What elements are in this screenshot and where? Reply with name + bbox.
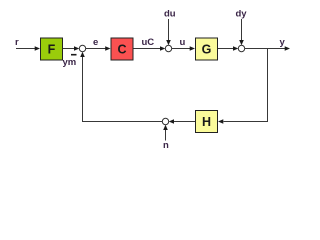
wire du vertical — [168, 19, 170, 42]
wire dy vertical — [241, 19, 243, 42]
block F — [41, 38, 63, 60]
block H — [196, 111, 218, 133]
wire H to sum4 — [174, 121, 196, 123]
block C — [111, 38, 133, 60]
arrowhead into F — [35, 46, 40, 51]
block G — [196, 38, 218, 60]
svg-text:y: y — [280, 37, 286, 48]
svg-text:F: F — [48, 43, 56, 57]
arrowhead into sum4 right — [169, 119, 174, 124]
summing junction sum4 — [162, 118, 168, 124]
arrowhead into sum1 left — [74, 46, 79, 51]
arrowhead into H right — [218, 119, 223, 124]
svg-text:uC: uC — [142, 37, 155, 48]
svg-text:C: C — [117, 43, 126, 57]
summing junction sum1 — [79, 45, 85, 51]
wire G to sum3 — [218, 48, 235, 50]
svg-text:u: u — [180, 37, 186, 48]
arrowhead into G — [190, 46, 195, 51]
arrowhead du into sum2 top — [166, 40, 171, 45]
svg-text:n: n — [163, 140, 169, 151]
svg-text:H: H — [202, 115, 211, 129]
arrowhead n into sum4 bottom — [163, 125, 168, 130]
wire n vertical — [165, 130, 167, 141]
wire r input — [16, 48, 35, 50]
wire feedback sum4 to sum1 — [83, 57, 163, 122]
minus sign at sum1 — [71, 54, 77, 56]
wire sum3 to output y — [245, 48, 286, 50]
wire sum1 to C — [86, 48, 107, 50]
svg-text:e: e — [93, 37, 98, 48]
wire C to sum2 — [134, 48, 162, 50]
summing junction sum2 — [165, 45, 171, 51]
wire F to sum1 — [63, 48, 76, 50]
svg-text:r: r — [15, 37, 19, 48]
wire branch down from output — [224, 49, 268, 122]
arrowhead into sum3 left — [233, 46, 238, 51]
arrowhead output y — [285, 46, 290, 51]
arrowhead into C — [105, 46, 110, 51]
wire sum2 to G — [172, 48, 191, 50]
arrowhead dy into sum3 top — [239, 40, 244, 45]
svg-text:G: G — [202, 43, 212, 57]
arrowhead into sum2 left — [160, 46, 165, 51]
svg-text:ym: ym — [63, 57, 77, 68]
summing junction sum3 — [238, 45, 244, 51]
svg-text:du: du — [164, 9, 176, 20]
arrowhead feedback into sum1 bottom — [80, 52, 85, 57]
svg-text:dy: dy — [236, 9, 248, 20]
